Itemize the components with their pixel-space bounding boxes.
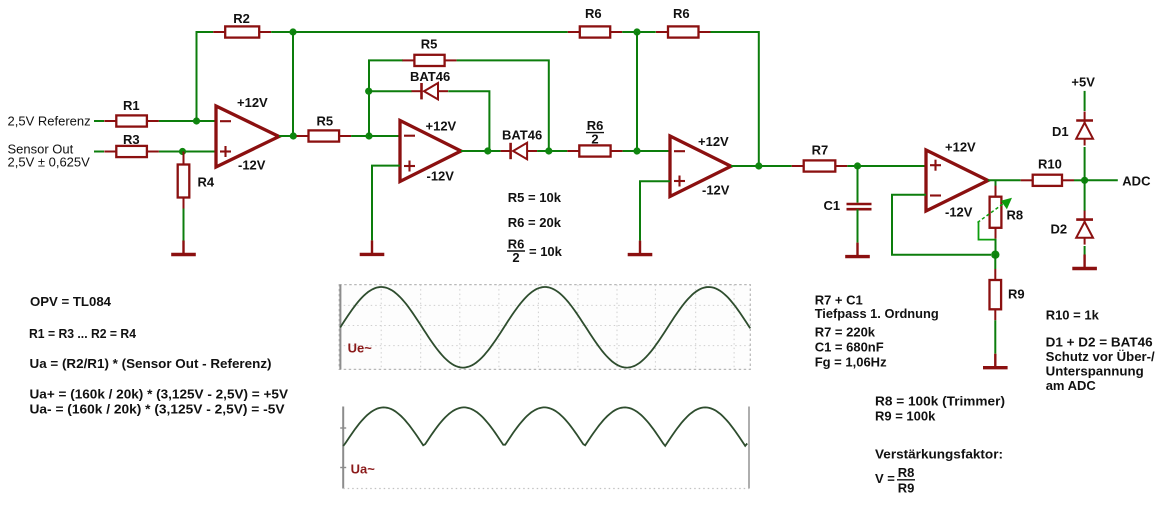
- wire BAT46 feedback right vertical: [448, 91, 489, 151]
- plot Ue box and grid: [339, 285, 750, 370]
- wire R2 junction down to U1 output: [292, 32, 294, 136]
- svg-text:R5: R5: [317, 114, 334, 129]
- svg-text:V =: V =: [875, 471, 895, 486]
- svg-text:-12V: -12V: [702, 183, 730, 198]
- ground ground below D2: [1072, 255, 1097, 269]
- svg-text:D2: D2: [1051, 222, 1068, 237]
- wire U3 output: [731, 165, 792, 167]
- svg-text:R7 = 220k: R7 = 220k: [815, 325, 876, 340]
- svg-text:R7: R7: [812, 143, 829, 158]
- resistor R7: [792, 160, 848, 171]
- svg-text:R8: R8: [898, 465, 915, 480]
- ground ground below C1: [845, 243, 870, 257]
- wire R2 feedback left vertical: [197, 32, 214, 121]
- svg-text:R6 = 20k: R6 = 20k: [508, 215, 562, 230]
- wire R3 to U1 noninverting input: [159, 151, 216, 153]
- wire +5V to D1: [1084, 91, 1086, 111]
- wire R1 to U1 inverting input: [159, 120, 216, 122]
- op-amp U2: [400, 121, 461, 182]
- svg-text:am ADC: am ADC: [1046, 378, 1097, 393]
- svg-text:R10: R10: [1038, 157, 1062, 172]
- label R6/2 = 10k: [507, 237, 563, 266]
- svg-text:+12V: +12V: [237, 95, 268, 110]
- svg-text:R5 = 10k: R5 = 10k: [508, 190, 562, 205]
- plot Ua box and axes: [340, 407, 749, 489]
- svg-text:R4: R4: [198, 175, 215, 190]
- svg-text:ADC: ADC: [1122, 174, 1151, 189]
- wire R4 to ground: [183, 209, 185, 241]
- resistor R6/2: [567, 145, 622, 156]
- waveform Ue sine curve: [340, 287, 750, 368]
- junction U3 inverting node: [633, 147, 640, 154]
- svg-text:R9: R9: [1008, 287, 1025, 302]
- svg-text:Ua+ = (160k / 20k) * (3,125V -: Ua+ = (160k / 20k) * (3,125V - 2,5V) = +…: [30, 387, 289, 402]
- svg-text:2: 2: [591, 132, 598, 147]
- resistor R2: [213, 26, 271, 37]
- op-amp U4: [926, 150, 988, 211]
- junction R8 R9 feedback node: [991, 251, 999, 259]
- wire sensor input: [94, 151, 104, 153]
- wire U4 output: [988, 179, 1021, 181]
- resistor R4: [178, 154, 190, 209]
- ground ground below U3: [628, 241, 653, 255]
- wire R6 feedback right: [711, 32, 759, 166]
- svg-text:R1 = R3 ... R2 = R4: R1 = R3 ... R2 = R4: [29, 326, 137, 341]
- junction R4 top / R3 node: [179, 148, 186, 155]
- wire R9 to ground: [994, 320, 996, 353]
- diode BAT46 series: [501, 143, 537, 159]
- wire ADC node to label: [1085, 179, 1118, 181]
- op-amp U3: [670, 136, 731, 197]
- wire referenz input: [94, 120, 104, 122]
- wire BAT46 series to R5 feedback node: [537, 150, 567, 152]
- resistor R10: [1021, 175, 1074, 186]
- svg-text:BAT46: BAT46: [502, 128, 542, 143]
- diode D2: [1076, 211, 1093, 245]
- wire U2 noninverting to ground: [372, 166, 400, 241]
- svg-text:R6: R6: [585, 6, 602, 21]
- wire ADC node to D2: [1084, 180, 1086, 211]
- svg-text:+5V: +5V: [1071, 74, 1095, 89]
- svg-text:Tiefpass 1. Ordnung: Tiefpass 1. Ordnung: [815, 306, 939, 321]
- svg-text:Ue~: Ue~: [348, 341, 373, 356]
- wire top rail: [293, 31, 568, 33]
- capacitor C1: [847, 204, 872, 209]
- junction U1 output node: [290, 132, 297, 139]
- svg-text:R1: R1: [123, 98, 140, 113]
- resistor R5: [402, 55, 456, 66]
- svg-text:+12V: +12V: [426, 119, 457, 134]
- wire D2 to ground: [1084, 246, 1086, 255]
- junction R5 feedback / R6-2 node: [545, 147, 552, 154]
- svg-text:R8 = 100k (Trimmer): R8 = 100k (Trimmer): [875, 394, 1005, 409]
- svg-text:R9: R9: [898, 481, 915, 496]
- svg-text:C1: C1: [824, 198, 841, 213]
- svg-text:Schutz vor Über-/: Schutz vor Über-/: [1046, 349, 1155, 364]
- wire R8 wiper to bottom: [979, 222, 996, 240]
- svg-text:R3: R3: [123, 132, 140, 147]
- junction top rail R6 node: [633, 28, 640, 35]
- junction R2 right / top rail: [289, 28, 296, 35]
- svg-text:OPV = TL084: OPV = TL084: [30, 294, 112, 309]
- junction R2 feedback / R1 node: [193, 117, 200, 124]
- junction U3 output / R6 feedback: [755, 162, 762, 169]
- wire R8 bottom to junction: [995, 239, 997, 255]
- op-amp U1: [216, 106, 279, 167]
- wire U2 feedback left vertical: [369, 60, 403, 136]
- resistor R1: [104, 115, 159, 126]
- svg-text:= 10k: = 10k: [529, 244, 563, 259]
- wire junction to R9: [994, 255, 996, 269]
- wire R10 to ADC node: [1074, 179, 1085, 181]
- resistor R9: [990, 269, 1002, 320]
- wire R7 to U4 noninverting input: [847, 165, 926, 167]
- resistor R8: [990, 186, 1002, 239]
- wire between R6 resistors: [622, 31, 656, 33]
- ground ground below R4: [171, 241, 196, 255]
- svg-text:-12V: -12V: [238, 158, 266, 173]
- ground ground below R9: [983, 354, 1008, 368]
- svg-text:BAT46: BAT46: [410, 69, 450, 84]
- junction U2 output / BAT46 feedback: [484, 147, 491, 154]
- resistor R5: [297, 130, 352, 141]
- svg-text:R10 = 1k: R10 = 1k: [1046, 307, 1100, 322]
- svg-text:2,5V ± 0,625V: 2,5V ± 0,625V: [8, 155, 91, 170]
- wire R5 feedback right vertical: [457, 60, 549, 151]
- note V = R8/R9: [875, 465, 915, 496]
- svg-text:R9 = 100k: R9 = 100k: [875, 409, 936, 424]
- svg-text:Fg = 1,06Hz: Fg = 1,06Hz: [815, 355, 887, 370]
- label R6/2 fraction: [586, 118, 604, 147]
- svg-text:+12V: +12V: [945, 140, 976, 155]
- wire R6 node down to U3 inverting rail: [636, 32, 638, 151]
- diode BAT46 feedback: [412, 83, 449, 99]
- wire R2 to top rail junction: [271, 31, 293, 33]
- wire U2 output: [461, 150, 501, 152]
- svg-text:D1: D1: [1052, 124, 1069, 139]
- diode D1: [1076, 112, 1093, 146]
- svg-text:Unterspannung: Unterspannung: [1046, 364, 1144, 379]
- svg-text:Ua = (R2/R1) * (Sensor Out - R: Ua = (R2/R1) * (Sensor Out - Referenz): [30, 356, 272, 371]
- waveform Ua rectified curve: [343, 407, 747, 446]
- svg-text:-12V: -12V: [427, 169, 455, 184]
- resistor R3: [104, 146, 159, 157]
- svg-text:2: 2: [512, 250, 519, 265]
- wire U3 noninverting to ground: [640, 181, 670, 240]
- wire U1 output: [279, 135, 297, 137]
- resistor R6: [568, 26, 622, 37]
- svg-text:D1 + D2 = BAT46: D1 + D2 = BAT46: [1046, 335, 1153, 350]
- svg-text:R8: R8: [1007, 208, 1024, 223]
- wire C1 to ground: [857, 209, 859, 242]
- svg-text:2,5V Referenz: 2,5V Referenz: [8, 114, 91, 129]
- svg-text:Ua~: Ua~: [351, 462, 376, 477]
- svg-text:R5: R5: [421, 37, 438, 52]
- junction BAT46 feedback left: [365, 88, 372, 95]
- ground ground below U2: [360, 240, 385, 254]
- wire U4 inverting feedback: [892, 195, 991, 255]
- svg-text:+12V: +12V: [698, 134, 729, 149]
- wire C1 top: [857, 166, 859, 203]
- svg-text:Ua- = (160k / 20k) * (3,125V: Ua- = (160k / 20k) * (3,125V - 2,5V) = -…: [30, 402, 285, 417]
- wire R5 to U2 inverting input: [351, 135, 400, 137]
- svg-text:-12V: -12V: [945, 205, 973, 220]
- wire R8 top: [995, 180, 997, 186]
- svg-text:Verstärkungsfaktor:: Verstärkungsfaktor:: [875, 447, 1003, 462]
- svg-text:R2: R2: [233, 11, 250, 26]
- junction R7 C1 node: [854, 162, 861, 169]
- resistor R6: [656, 26, 711, 37]
- wire BAT46 feedback left: [369, 90, 412, 92]
- svg-text:C1 = 680nF: C1 = 680nF: [815, 340, 884, 355]
- junction ADC node: [1081, 177, 1088, 184]
- junction U2 inverting node: [365, 132, 372, 139]
- trimmer wiper R8: [978, 198, 1013, 223]
- wire R4 pin top: [183, 152, 185, 154]
- svg-text:R6: R6: [673, 6, 690, 21]
- wire D1 to ADC node: [1084, 147, 1086, 180]
- wire R6-2 to U3 inverting input: [623, 150, 670, 152]
